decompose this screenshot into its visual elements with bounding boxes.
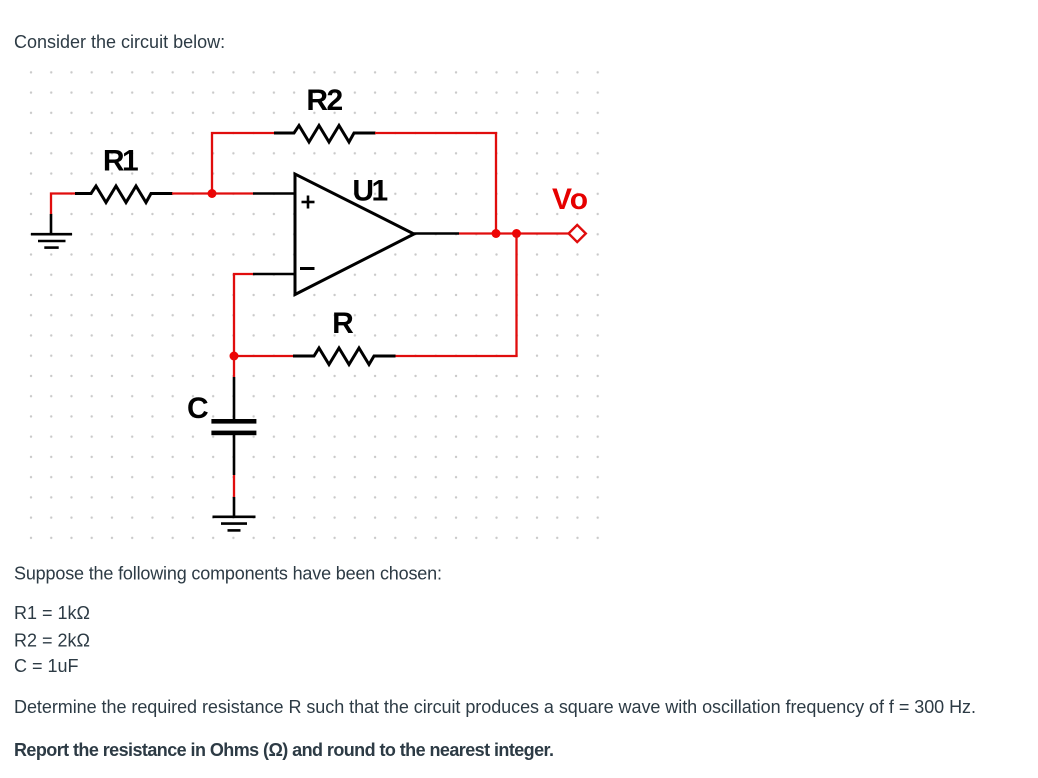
svg-text:R2: R2 (306, 84, 342, 117)
svg-text:R: R (332, 307, 354, 340)
resistor R (293, 348, 396, 365)
wire: junction up to R2 left lead (red) (212, 133, 275, 194)
wire: junction to op-amp + input (red then black) (212, 192, 253, 194)
node B: output junction with R2 feedback (492, 229, 501, 238)
svg-text:Vo: Vo (552, 183, 588, 216)
ground GND1 (left) (31, 214, 72, 248)
svg-text:C: C (187, 392, 209, 425)
wire: node D down to capacitor (red then black) (233, 356, 235, 377)
svg-text:Report the resistance in Ohms: Report the resistance in Ohms (Ω) and ro… (14, 740, 554, 760)
resistor R1 (75, 186, 173, 203)
node A: junction at non-inverting input (208, 189, 217, 198)
svg-text:U1: U1 (352, 174, 387, 207)
svg-text:R2 = 2kΩ: R2 = 2kΩ (14, 630, 90, 650)
output terminal Vo (diamond) (569, 225, 586, 242)
op-amp - input marking (300, 267, 315, 270)
svg-text:C = 1uF: C = 1uF (14, 656, 79, 676)
op-amp + input marking (302, 196, 315, 209)
wire: R1 to non-inverting junction (red) (172, 192, 212, 194)
ground GND2 (bottom) (213, 517, 256, 531)
wire: left terminal corner to R1 left lead (red) (51, 194, 76, 215)
wire: R2 right lead to output node (red) (375, 133, 496, 234)
capacitor C1 plates (211, 419, 256, 424)
wire: capacitor to bottom ground (black, red, black) (233, 435, 236, 475)
wire: output node down to R right lead (red) (395, 234, 517, 357)
svg-text:Suppose the following componen: Suppose the following components have be… (14, 563, 442, 583)
svg-text:Consider the circuit below:: Consider the circuit below: (14, 32, 225, 52)
node D: junction at inverting input / R / C (230, 352, 239, 361)
wire: inverting input to corner and down to node D (red then black) (253, 273, 295, 276)
wire: node D to R left lead (red) (234, 355, 294, 357)
svg-text:R1: R1 (103, 145, 138, 178)
op-amp U1 triangle (295, 174, 414, 295)
node C2: output junction to R branch (512, 229, 521, 238)
svg-text:R1 = 1kΩ: R1 = 1kΩ (14, 603, 90, 623)
wire: op-amp output (black then red to Vo) (414, 232, 459, 235)
resistor R2 (274, 126, 376, 143)
svg-text:Determine the required resista: Determine the required resistance R such… (14, 697, 976, 717)
